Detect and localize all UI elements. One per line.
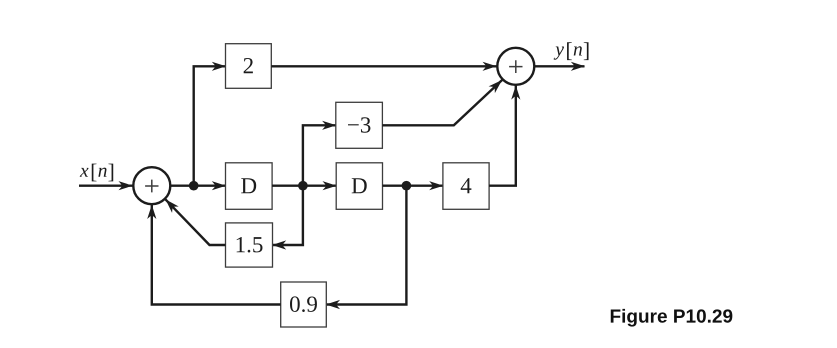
node label y[n] (output signal): [554, 42, 589, 60]
gain block -3: [336, 102, 383, 148]
wire: node A up and right into gain box 2: [194, 62, 226, 186]
summing junction S2 (output adder, +): [497, 48, 534, 85]
delay block D1 (first D): [226, 163, 273, 210]
node C (pickoff after delay D2): [402, 181, 412, 191]
wire: delay D1 output to delay D2: [272, 181, 337, 190]
wire: input x[n] into summer S1: [79, 181, 133, 190]
summing junction S1 (adder, +): [133, 167, 170, 204]
wire: node B up and right into gain box -3: [303, 121, 336, 186]
gain block 0.9 (feedback): [281, 282, 327, 327]
wire: gain 2 output to summer S2: [271, 62, 497, 71]
wire: summer S1 output to delay D1: [171, 181, 227, 190]
node A (pickoff after summer S1): [189, 181, 199, 191]
wire: delay D2 output to gain box 4: [383, 181, 444, 190]
gain block 1.5 (feedback): [226, 223, 273, 267]
delay block D2 (second D): [336, 163, 382, 210]
wire: node C down then left into gain box 0.9: [326, 186, 407, 309]
wire: node B down then left into gain box 1.5: [272, 186, 303, 250]
wire: gain 1.5 output left then diagonally up into summer S1: [166, 199, 226, 245]
wire: gain 4 output right then up into summer S2 from below: [489, 85, 520, 186]
wire: summer S2 output arrow to y[n]: [535, 62, 586, 71]
wire: gain -3 output right then diagonally up into summer S2: [382, 80, 502, 125]
caption: Figure P10.29: [611, 309, 733, 327]
wire: gain 0.9 output left then up into summer S1 from below: [147, 204, 281, 304]
node B (pickoff after delay D1): [298, 181, 308, 191]
gain block 4: [443, 163, 489, 210]
node label x[n] (input signal): [80, 164, 113, 182]
gain block 2: [226, 44, 272, 89]
